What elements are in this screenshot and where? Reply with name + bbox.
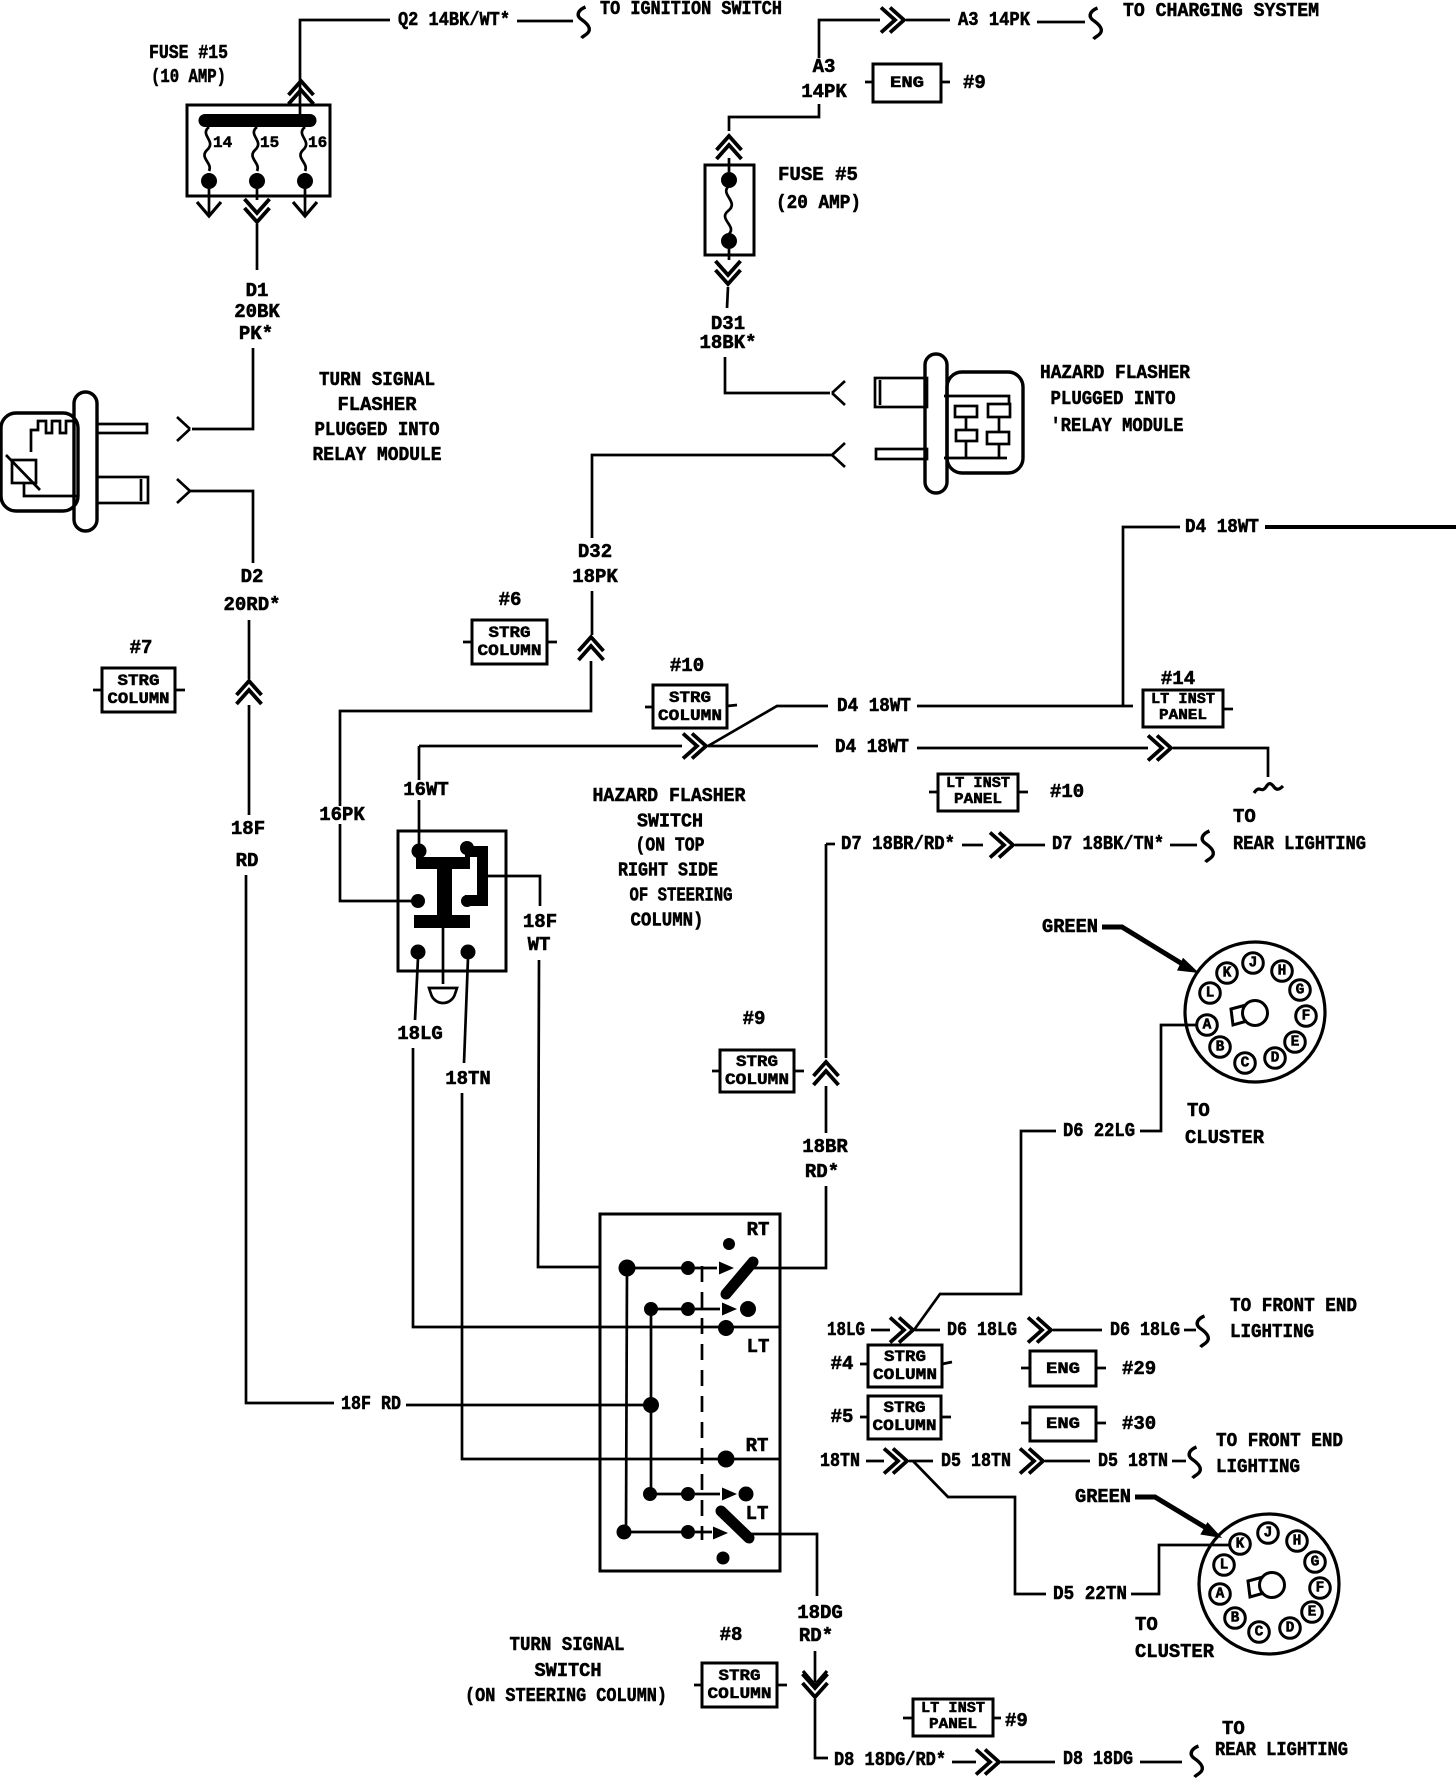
svg-text:TO FRONT END: TO FRONT END [1216, 1430, 1343, 1452]
fuse element 14 [204, 127, 210, 171]
connector box LT INST PANEL #14 [1223, 708, 1233, 711]
svg-text:L: L [1206, 986, 1215, 1002]
hazard switch C contact [465, 852, 483, 901]
svg-text:TO IGNITION SWITCH: TO IGNITION SWITCH [600, 0, 782, 20]
wire 18LG row (D6) [779, 1326, 782, 1329]
pin 14 arrow [208, 189, 211, 214]
fuse #5 box [705, 165, 754, 255]
wire 18F RD long run down [246, 875, 334, 1403]
break to rear lighting (D4) [1254, 784, 1283, 793]
svg-text:FLASHER: FLASHER [338, 394, 418, 416]
svg-text:E: E [1308, 1605, 1317, 1621]
wire 18TN from hazard switch [464, 958, 468, 1063]
svg-text:#4: #4 [831, 1353, 854, 1375]
svg-text:LIGHTING: LIGHTING [1230, 1321, 1314, 1343]
svg-text:OF STEERING: OF STEERING [630, 885, 733, 907]
svg-text:#10: #10 [1050, 781, 1084, 803]
svg-text:B: B [1231, 1611, 1240, 1627]
wire 18F WT down to turn signal switch [538, 960, 600, 1267]
hazard socket arrow bottom [832, 443, 845, 467]
svg-text:14PK: 14PK [801, 81, 847, 103]
pin L [1200, 983, 1221, 1004]
svg-text:REAR LIGHTING: REAR LIGHTING [1215, 1739, 1348, 1761]
fuse block #15 box [187, 105, 330, 196]
pin A [1197, 1015, 1218, 1036]
svg-text:15: 15 [260, 134, 279, 152]
row RT lower: contacts [643, 1487, 657, 1501]
keyway bulb (top cluster) [1243, 1001, 1268, 1026]
flasher socket arrow bottom [177, 479, 190, 503]
row LT upper: contacts [644, 1302, 658, 1316]
svg-text:STRG: STRG [669, 689, 711, 707]
pin C [1235, 1053, 1256, 1074]
connector box ENG #9 [865, 81, 950, 84]
svg-text:GREEN: GREEN [1075, 1486, 1131, 1508]
svg-text:STRG: STRG [884, 1348, 926, 1366]
wire A3 down to fuse 5 [729, 104, 819, 131]
svg-text:COLUMN: COLUMN [108, 690, 170, 708]
svg-text:STRG: STRG [118, 672, 160, 690]
hazard switch I-beam contact [416, 857, 470, 869]
keyway bulb (bottom cluster) [1260, 1573, 1285, 1598]
svg-text:TO: TO [1233, 806, 1256, 828]
svg-text:(10 AMP): (10 AMP) [151, 66, 226, 88]
svg-text:COLUMN: COLUMN [873, 1366, 937, 1384]
connector box STRG COLUMN #8 [694, 1684, 787, 1687]
flasher flange [74, 392, 97, 531]
svg-text:K: K [1223, 966, 1232, 982]
svg-text:B: B [1216, 1040, 1225, 1056]
wire D1 to flasher [192, 348, 253, 429]
svg-text:TO: TO [1187, 1100, 1210, 1122]
wire 18BR RD* riser [825, 844, 828, 1058]
wire D31 to hazard flasher [725, 357, 830, 393]
svg-text:GREEN: GREEN [1042, 916, 1098, 938]
break to ignition switch [578, 7, 589, 38]
svg-text:STRG: STRG [489, 624, 531, 642]
wire 18LG down [413, 1048, 600, 1327]
svg-text:SWITCH: SWITCH [637, 811, 703, 833]
hazard switch contact dot top-left [412, 844, 427, 859]
svg-text:L: L [1220, 1558, 1229, 1574]
svg-text:F: F [1302, 1009, 1311, 1025]
wire D2 from flasher down [190, 491, 253, 563]
svg-text:PLUGGED INTO: PLUGGED INTO [1051, 388, 1176, 410]
svg-text:'RELAY MODULE: 'RELAY MODULE [1051, 415, 1184, 437]
svg-text:E: E [1291, 1035, 1300, 1051]
svg-text:16: 16 [308, 134, 327, 152]
hazard flasher switch box [398, 831, 506, 971]
flasher socket arrow top [177, 417, 190, 441]
junction dot 18F RD [643, 1397, 659, 1413]
pin K [1230, 1534, 1251, 1555]
svg-text:18TN: 18TN [820, 1450, 860, 1472]
node tee at LT INST PANEL #14 [1123, 527, 1180, 706]
svg-text:STRG: STRG [884, 1399, 926, 1417]
svg-text:COLUMN: COLUMN [873, 1417, 937, 1435]
svg-text:#9: #9 [1005, 1710, 1028, 1732]
svg-text:C: C [1255, 1625, 1264, 1641]
hazard socket arrow top [832, 381, 845, 405]
svg-text:TO: TO [1135, 1614, 1158, 1636]
svg-text:D2: D2 [241, 566, 264, 588]
wiper bar LT [721, 1511, 749, 1538]
svg-text:LT INST: LT INST [1151, 692, 1215, 708]
hazard flasher prong upper [875, 378, 927, 407]
hazard flasher flange [925, 354, 947, 493]
svg-text:18BR: 18BR [802, 1136, 848, 1158]
svg-text:A: A [1203, 1018, 1212, 1034]
svg-text:18F: 18F [231, 818, 265, 840]
svg-text:D7 18BR/RD*: D7 18BR/RD* [841, 833, 955, 855]
svg-text:D32: D32 [578, 541, 612, 563]
svg-text:J: J [1264, 1526, 1273, 1542]
svg-text:D7 18BK/TN*: D7 18BK/TN* [1052, 833, 1164, 855]
svg-text:CLUSTER: CLUSTER [1135, 1641, 1215, 1663]
connector box LT INST PANEL #9 [903, 1717, 1001, 1720]
svg-text:D6 18LG: D6 18LG [1110, 1319, 1180, 1341]
svg-text:D4 18WT: D4 18WT [837, 695, 911, 717]
row RT upper: contacts and wiper [619, 1260, 636, 1277]
svg-text:#5: #5 [831, 1406, 854, 1428]
svg-text:SWITCH: SWITCH [535, 1660, 602, 1682]
wire 18TN down [462, 1093, 600, 1459]
fuse element 16 [300, 127, 306, 171]
svg-text:18F: 18F [523, 911, 557, 933]
svg-text:COLUMN: COLUMN [478, 642, 542, 660]
svg-text:D6 18LG: D6 18LG [947, 1319, 1017, 1341]
svg-text:TO: TO [1222, 1718, 1245, 1740]
pin D [1280, 1618, 1301, 1639]
connector chevron on D32 wire [579, 637, 604, 660]
wire D6 22LG from cluster A [1140, 1025, 1196, 1131]
flasher thermal contact box [12, 460, 36, 483]
fuse element 15 [252, 127, 258, 171]
svg-text:(20 AMP): (20 AMP) [776, 192, 861, 214]
svg-text:G: G [1296, 983, 1305, 999]
wire 18TN through box [600, 1458, 780, 1461]
pin E [1302, 1602, 1323, 1623]
svg-text:D5 22TN: D5 22TN [1053, 1583, 1127, 1605]
pin F [1296, 1006, 1317, 1027]
svg-text:#8: #8 [720, 1624, 743, 1646]
wire D2 continues [248, 620, 251, 679]
svg-text:LT: LT [746, 1503, 769, 1525]
svg-text:F: F [1316, 1581, 1325, 1597]
pin L [1214, 1555, 1235, 1576]
svg-text:14: 14 [213, 134, 233, 152]
wire D5 22TN from 18TN chevron to cluster K [913, 1461, 1046, 1594]
flasher prong upper [97, 424, 147, 433]
green pointer arrow (top cluster) [1102, 927, 1184, 965]
break to charging system [1090, 8, 1101, 39]
fuse terminal dots [201, 173, 217, 189]
pin G [1290, 980, 1311, 1001]
pin H [1287, 1531, 1308, 1552]
svg-text:(ON TOP: (ON TOP [636, 835, 705, 857]
svg-text:RELAY MODULE: RELAY MODULE [313, 444, 442, 466]
pin D [1265, 1048, 1286, 1069]
wire diagonal up to D4 18WT upper row [708, 706, 828, 746]
wiper bar RT [726, 1262, 753, 1294]
hazard switch actuator stem [442, 928, 445, 984]
pin B [1225, 1608, 1246, 1629]
svg-text:RD: RD [236, 850, 259, 872]
svg-text:#14: #14 [1161, 668, 1195, 690]
connector box STRG COLUMN #10 [645, 705, 737, 707]
svg-text:PANEL: PANEL [929, 1717, 977, 1733]
wire 18LG through box [600, 1326, 780, 1329]
svg-text:A3 14PK: A3 14PK [958, 9, 1031, 31]
svg-text:CLUSTER: CLUSTER [1185, 1127, 1265, 1149]
turn signal switch box [600, 1214, 780, 1571]
break to front end lighting (D5) [1189, 1447, 1200, 1478]
connector box STRG COLUMN #9 [712, 1070, 804, 1073]
hazard flasher prong lower [876, 449, 927, 459]
svg-text:J: J [1249, 956, 1258, 972]
cluster connector (top) [1185, 942, 1325, 1082]
svg-text:G: G [1311, 1555, 1320, 1571]
svg-text:D8 18DG: D8 18DG [1063, 1748, 1133, 1770]
svg-text:ENG: ENG [890, 74, 924, 92]
svg-text:PK*: PK* [239, 323, 273, 345]
pin H [1272, 961, 1293, 982]
contact dot bottom idle [717, 1552, 730, 1565]
wire 18BR RD* to switch [780, 1186, 826, 1268]
pin 16 arrow [304, 189, 307, 214]
svg-text:18BK*: 18BK* [699, 332, 756, 354]
svg-text:COLUMN): COLUMN) [631, 910, 704, 932]
svg-text:COLUMN: COLUMN [658, 707, 722, 725]
svg-text:18DG: 18DG [797, 1602, 843, 1624]
connector box STRG COLUMN #5 [860, 1416, 951, 1419]
svg-text:16PK: 16PK [319, 804, 365, 826]
row LT lower: contacts and wiper [617, 1525, 632, 1540]
svg-text:D5 18TN: D5 18TN [941, 1450, 1011, 1472]
svg-text:RT: RT [746, 1435, 769, 1457]
svg-text:18LG: 18LG [827, 1319, 865, 1341]
svg-text:(ON STEERING COLUMN): (ON STEERING COLUMN) [465, 1685, 667, 1707]
svg-text:#6: #6 [499, 589, 522, 611]
svg-text:20RD*: 20RD* [223, 594, 280, 616]
svg-text:WT: WT [528, 934, 551, 956]
svg-text:K: K [1236, 1537, 1245, 1553]
svg-text:D8 18DG/RD*: D8 18DG/RD* [834, 1749, 946, 1771]
wire 16WT riser [418, 746, 421, 846]
wire 18DG RD* from turn signal switch [780, 1534, 817, 1596]
svg-text:LT INST: LT INST [921, 1701, 985, 1717]
svg-text:ENG: ENG [1046, 1360, 1080, 1378]
svg-text:#30: #30 [1122, 1413, 1156, 1435]
svg-text:PANEL: PANEL [1159, 708, 1207, 724]
break to rear lighting (D8) [1191, 1746, 1202, 1777]
svg-text:18LG: 18LG [397, 1023, 443, 1045]
svg-text:#10: #10 [670, 655, 704, 677]
svg-text:D4 18WT: D4 18WT [835, 736, 909, 758]
connector chevron on Q2 wire [289, 81, 314, 104]
pin K [1217, 963, 1238, 984]
svg-text:H: H [1293, 1534, 1302, 1550]
svg-text:D6 22LG: D6 22LG [1063, 1120, 1135, 1142]
internal vertical A [626, 1268, 627, 1532]
break to front end lighting (D6) [1197, 1316, 1208, 1347]
pin J [1258, 1523, 1279, 1544]
wire D32 from hazard flasher [592, 455, 832, 538]
svg-text:#9: #9 [963, 72, 986, 94]
wire D7 row [826, 843, 835, 846]
svg-text:STRG: STRG [736, 1053, 778, 1071]
connector box ENG #29 [1021, 1367, 1106, 1370]
wire D4 18WT second row [419, 745, 422, 748]
svg-text:PANEL: PANEL [954, 792, 1002, 808]
svg-text:D5 18TN: D5 18TN [1098, 1450, 1168, 1472]
contact dot RT idle [723, 1238, 735, 1250]
svg-text:18F RD: 18F RD [341, 1393, 401, 1415]
svg-text:D4 18WT: D4 18WT [1185, 516, 1259, 538]
wire D4 18WT row from hazard switch [419, 745, 682, 748]
svg-text:LT INST: LT INST [946, 776, 1010, 792]
svg-text:RT: RT [747, 1219, 770, 1241]
cluster connector (bottom) [1199, 1514, 1339, 1654]
wire below fuse 5 with chevrons [728, 249, 731, 260]
svg-text:PLUGGED INTO: PLUGGED INTO [315, 419, 440, 441]
wire D32 continues [591, 591, 594, 635]
connector chevron on D2 wire [237, 681, 262, 704]
svg-text:C: C [1241, 1056, 1250, 1072]
pin G [1305, 1552, 1326, 1573]
wire A3 14PK to charging system [819, 20, 880, 58]
svg-text:LT: LT [747, 1336, 770, 1358]
svg-text:LIGHTING: LIGHTING [1216, 1456, 1300, 1478]
svg-text:STRG: STRG [719, 1667, 761, 1685]
svg-text:COLUMN: COLUMN [708, 1685, 772, 1703]
svg-text:D: D [1286, 1621, 1295, 1637]
flasher prong lower [97, 477, 148, 503]
svg-text:REAR LIGHTING: REAR LIGHTING [1233, 833, 1366, 855]
svg-text:HAZARD FLASHER: HAZARD FLASHER [1040, 362, 1191, 384]
svg-text:FUSE #15: FUSE #15 [149, 42, 228, 64]
connector box LT INST PANEL #10 [929, 791, 1028, 794]
svg-text:TURN SIGNAL: TURN SIGNAL [510, 1634, 625, 1656]
pin A [1210, 1584, 1231, 1605]
wire 18LG from hazard switch [415, 958, 418, 1020]
svg-text:RD*: RD* [799, 1625, 833, 1647]
hazard switch contact dot left-middle [411, 894, 425, 908]
wire D4 18WT to right edge [1265, 525, 1456, 529]
bus bar [205, 114, 310, 127]
pin B [1210, 1037, 1231, 1058]
svg-text:TO FRONT END: TO FRONT END [1230, 1295, 1357, 1317]
svg-text:ENG: ENG [1046, 1415, 1080, 1433]
svg-text:TO CHARGING SYSTEM: TO CHARGING SYSTEM [1123, 0, 1319, 22]
pin C [1249, 1622, 1270, 1643]
svg-text:18PK: 18PK [572, 566, 618, 588]
svg-text:D1: D1 [246, 280, 269, 302]
dashed neutral line [701, 1266, 704, 1540]
svg-text:FUSE #5: FUSE #5 [778, 164, 858, 186]
internal vertical B [650, 1309, 653, 1494]
svg-text:18TN: 18TN [445, 1068, 491, 1090]
svg-text:H: H [1278, 964, 1287, 980]
pin F [1310, 1578, 1331, 1599]
wire Q2 14BK/WT to ignition switch [300, 20, 390, 118]
svg-text:#29: #29 [1122, 1358, 1156, 1380]
svg-text:#9: #9 [743, 1008, 766, 1030]
svg-text:16WT: 16WT [403, 779, 449, 801]
break to rear lighting (D7) [1202, 831, 1213, 862]
pin 15 wire with connector chevrons [256, 189, 259, 200]
pin E [1285, 1032, 1306, 1053]
wire 18F WT from hazard switch [488, 876, 540, 906]
connector box STRG COLUMN #6 [463, 641, 557, 644]
wire 16PK into hazard switch [340, 824, 412, 901]
svg-text:RIGHT SIDE: RIGHT SIDE [618, 860, 718, 882]
turn signal flasher body [1, 413, 78, 511]
svg-text:HAZARD FLASHER: HAZARD FLASHER [593, 785, 747, 807]
connector chevron on fuse 5 feed [717, 136, 742, 159]
hazard flasher contacts [944, 396, 1009, 404]
pin J [1243, 953, 1264, 974]
svg-text:TURN SIGNAL: TURN SIGNAL [319, 369, 435, 391]
connector box STRG COLUMN #7 [93, 689, 185, 692]
connector box STRG COLUMN #4 [860, 1362, 952, 1364]
svg-text:A3: A3 [813, 56, 836, 78]
svg-text:20BK: 20BK [234, 301, 280, 323]
svg-text:RD*: RD* [805, 1161, 839, 1183]
hazard switch contact dots bottom [411, 945, 426, 960]
svg-text:#7: #7 [130, 637, 153, 659]
fuse element 5 [725, 186, 732, 234]
green pointer arrow (bottom cluster) [1135, 1497, 1208, 1529]
svg-text:A: A [1216, 1587, 1225, 1603]
flasher heater coil [31, 421, 74, 452]
connector box ENG #30 [1021, 1422, 1106, 1425]
arrow and chevrons on 18DG wire [814, 1651, 817, 1682]
svg-text:COLUMN: COLUMN [725, 1071, 789, 1089]
svg-text:D: D [1271, 1051, 1280, 1067]
hazard flasher body [947, 372, 1023, 473]
svg-text:Q2 14BK/WT*: Q2 14BK/WT* [398, 9, 510, 31]
